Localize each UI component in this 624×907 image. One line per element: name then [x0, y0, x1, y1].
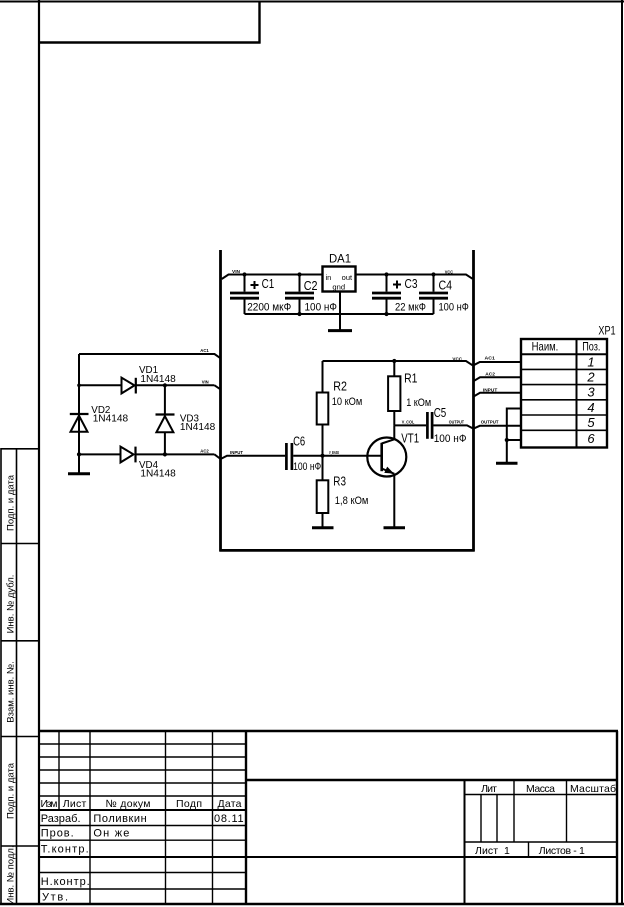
- svg-text:1: 1: [504, 845, 510, 857]
- svg-text:INPUT: INPUT: [483, 387, 498, 392]
- svg-text:AC1: AC1: [200, 348, 209, 353]
- resistor R1: [388, 361, 400, 425]
- svg-text:C2: C2: [304, 279, 318, 293]
- svg-text:Дата: Дата: [218, 798, 242, 810]
- svg-text:Н.контр.: Н.контр.: [41, 876, 90, 888]
- svg-text:22 мкФ: 22 мкФ: [395, 302, 426, 314]
- wire INPUT to XP1: [473, 393, 521, 397]
- wire VCC rail out: [356, 275, 473, 279]
- wire left bridge vertical: [78, 354, 80, 473]
- diode VD2: [70, 414, 89, 432]
- svg-text:Утв.: Утв.: [42, 892, 68, 904]
- svg-text:VCC: VCC: [445, 269, 453, 274]
- svg-text:VCC: VCC: [452, 356, 462, 361]
- right part of title block: [465, 780, 618, 856]
- svg-text:AC1: AC1: [485, 356, 496, 361]
- wire OUTPUT: [433, 425, 521, 428]
- svg-text:100 нФ: 100 нФ: [293, 461, 321, 473]
- svg-text:VT1: VT1: [401, 432, 419, 446]
- resistor R3: [317, 456, 329, 527]
- ground under R3: [312, 526, 334, 529]
- svg-text:R3: R3: [333, 475, 346, 489]
- svg-text:Пров.: Пров.: [41, 828, 74, 840]
- wire AC1 top left: [79, 354, 221, 358]
- svg-text:OUTPUT: OUTPUT: [481, 420, 499, 425]
- svg-text:R2: R2: [333, 380, 347, 394]
- svg-text:INPUT: INPUT: [230, 450, 243, 455]
- svg-text:Лист: Лист: [63, 798, 87, 810]
- ground left bridge: [68, 472, 90, 475]
- ground under emitter: [384, 526, 406, 529]
- svg-text:1N4148: 1N4148: [93, 413, 129, 425]
- schematic boundary box: [220, 250, 475, 552]
- svg-text:C3: C3: [405, 277, 418, 291]
- svg-text:C4: C4: [439, 279, 453, 293]
- svg-text:Разраб.: Разраб.: [41, 813, 81, 825]
- svg-text:1N4148: 1N4148: [180, 421, 216, 433]
- svg-text:V_COL: V_COL: [402, 419, 415, 424]
- svg-text:1: 1: [587, 354, 594, 369]
- svg-text:2200 мкФ: 2200 мкФ: [247, 302, 291, 314]
- svg-text:Подп: Подп: [176, 798, 202, 810]
- svg-text:Наим.: Наим.: [532, 340, 559, 354]
- svg-text:DA1: DA1: [329, 254, 351, 266]
- svg-text:C6: C6: [293, 435, 305, 449]
- stamp box top-left: [38, 2, 261, 44]
- svg-text:C5: C5: [434, 406, 447, 420]
- wire AC2 to XP1: [473, 377, 521, 381]
- svg-text:AC2: AC2: [200, 449, 209, 454]
- svg-text:08.11: 08.11: [214, 813, 244, 825]
- change table rows left: [39, 731, 246, 904]
- svg-text:1N4148: 1N4148: [140, 467, 176, 479]
- wire XP1 pins 4-6 bracket: [507, 409, 521, 463]
- svg-text:Т.контр.: Т.контр.: [41, 844, 89, 856]
- svg-text:Поз.: Поз.: [582, 340, 600, 354]
- svg-text:100 нФ: 100 нФ: [439, 302, 469, 314]
- svg-text:Инв. № дубл.: Инв. № дубл.: [6, 575, 17, 634]
- svg-text:AC2: AC2: [485, 372, 495, 377]
- svg-text:VIN: VIN: [232, 269, 240, 274]
- svg-text:6: 6: [587, 431, 595, 446]
- ground under DA1: [328, 329, 352, 332]
- wire VIN rail: [222, 275, 323, 280]
- capacitor C4: [419, 275, 448, 315]
- svg-text:R1: R1: [404, 372, 417, 386]
- svg-text:OUTPUT: OUTPUT: [449, 420, 465, 425]
- transistor VT1: [367, 425, 406, 526]
- resistor R2: [317, 361, 329, 456]
- svg-text:XP1: XP1: [598, 326, 615, 338]
- svg-text:Инв. № подл.: Инв. № подл.: [6, 845, 17, 904]
- svg-text:Поливкин: Поливкин: [93, 813, 146, 825]
- capacitor C5: [427, 412, 432, 439]
- svg-text:№ докум: № докум: [106, 798, 151, 810]
- svg-text:1,8 кОм: 1,8 кОм: [335, 495, 369, 507]
- capacitor C3: [372, 275, 401, 315]
- svg-text:Листов - 1: Листов - 1: [539, 845, 585, 857]
- wire DA1 gnd lead: [339, 292, 341, 331]
- svg-text:Лист: Лист: [475, 845, 498, 857]
- capacitor C2: [285, 275, 314, 315]
- svg-text:Лит: Лит: [481, 783, 497, 795]
- diode VD4: [121, 447, 136, 463]
- svg-text:10 кОм: 10 кОм: [332, 396, 363, 408]
- svg-text:Масса: Масса: [526, 783, 555, 795]
- diode VD3: [164, 385, 166, 414]
- diode VD1: [122, 378, 136, 394]
- capacitor C1: [230, 275, 259, 315]
- svg-text:100 нФ: 100 нФ: [305, 302, 338, 314]
- TITLE BLOCK: [39, 731, 618, 904]
- voltage regulator DA1: [323, 267, 356, 292]
- svg-text:Масштаб: Масштаб: [570, 783, 616, 795]
- svg-text:in: in: [326, 275, 332, 282]
- svg-text:4: 4: [587, 400, 594, 415]
- svg-text:1N4148: 1N4148: [140, 373, 176, 385]
- svg-text:V_BASE: V_BASE: [329, 450, 339, 455]
- wire VIN diode row: [79, 385, 221, 389]
- svg-text:Подп. и дата: Подп. и дата: [6, 762, 17, 819]
- svg-text:Подп. и дата: Подп. и дата: [6, 474, 17, 531]
- svg-text:gnd: gnd: [332, 284, 345, 291]
- wire VCC internal rail: [323, 361, 473, 365]
- svg-text:5: 5: [587, 415, 595, 430]
- svg-text:1 кОм: 1 кОм: [406, 397, 431, 409]
- svg-text:Взам. инв. №.: Взам. инв. №.: [6, 661, 17, 723]
- svg-text:Изм: Изм: [41, 798, 58, 810]
- svg-text:Он же: Он же: [93, 828, 129, 840]
- svg-text:C1: C1: [262, 277, 275, 291]
- LEFT MARGIN LABEL BOXES: [1, 449, 39, 904]
- svg-text:100 нФ: 100 нФ: [434, 433, 467, 445]
- wire AC2 row: [79, 454, 221, 459]
- wire collector row: [394, 424, 426, 426]
- svg-text:out: out: [342, 275, 352, 282]
- wire base: [293, 455, 381, 457]
- wire bottom rail of caps: [245, 313, 434, 315]
- svg-text:2: 2: [586, 370, 595, 385]
- wire AC1 to XP1: [473, 362, 521, 365]
- ground under XP1 bracket: [496, 462, 518, 465]
- wire INPUT inside box: [221, 456, 286, 459]
- capacitor C6: [286, 443, 292, 470]
- svg-text:VIN: VIN: [202, 380, 209, 385]
- svg-text:3: 3: [587, 385, 595, 400]
